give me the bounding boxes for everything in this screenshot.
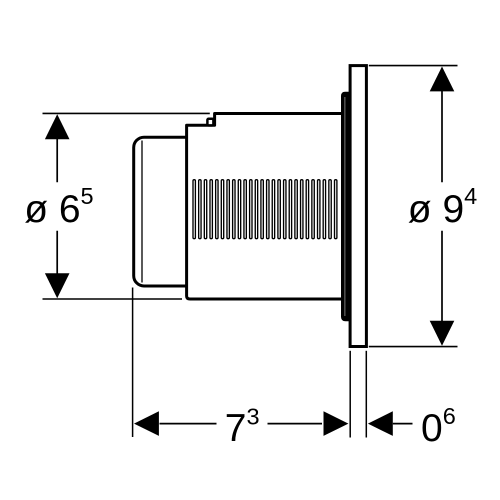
- wall plate flange: [350, 66, 366, 347]
- gasket seam highlight: [344, 97, 346, 316]
- extension line top right (o94 top): [369, 65, 458, 67]
- arrow 06 pointing left: [368, 411, 393, 436]
- arrow o94 down: [430, 321, 455, 346]
- extension line left for 73: [132, 288, 134, 438]
- gasket band between body and wall plate: [341, 92, 350, 321]
- extension line bottom right (o94 bottom): [369, 346, 458, 348]
- dimension tail 06: [393, 423, 413, 425]
- dimension line o94: [441, 91, 443, 323]
- button face inner edge line: [141, 141, 143, 283]
- extension line top left (o65 top): [43, 112, 210, 114]
- arrow o65 down: [45, 273, 70, 298]
- snap tab square on collar ledge: [207, 119, 213, 126]
- arrow o65 up: [45, 114, 70, 139]
- extension line bottom left (o65 bottom): [43, 298, 183, 300]
- thread ribs: [193, 180, 337, 239]
- main body (collar + threaded sleeve) outline: [187, 114, 342, 300]
- dimension line 73: [160, 423, 323, 425]
- arrow 73 right: [324, 411, 349, 436]
- arrow o94 up: [430, 67, 455, 92]
- dimension line o65: [56, 138, 58, 275]
- extension line left for 06 (flange front face): [349, 351, 351, 438]
- push button (front cap, side view): [134, 137, 187, 286]
- arrow 73 left: [134, 411, 159, 436]
- extension line right for 06 (flange back face): [365, 351, 367, 438]
